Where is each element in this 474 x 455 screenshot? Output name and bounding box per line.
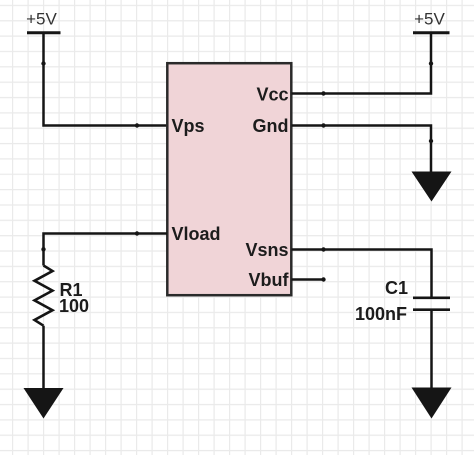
terminal dot at Vbuf stub end bbox=[321, 277, 325, 281]
power symbol +5V (right) bbox=[413, 10, 450, 33]
pin stub Vbuf (unconnected) bbox=[292, 278, 325, 281]
junction dot above Gnd ground bbox=[429, 139, 433, 143]
wire from C1 to ground bbox=[430, 311, 433, 389]
junction dot at Gnd pin end bbox=[321, 123, 325, 127]
svg-text:Vcc: Vcc bbox=[256, 85, 288, 105]
junction dot at Vcc pin end bbox=[321, 91, 325, 95]
junction dot at Vsns pin end bbox=[321, 247, 325, 251]
IC U1 body bbox=[167, 63, 291, 295]
wire from Vsns to capacitor C1 bbox=[292, 250, 432, 298]
ground symbol (under R1) bbox=[24, 388, 64, 419]
svg-text:Vps: Vps bbox=[172, 116, 205, 136]
junction dot on left +5V wire bbox=[41, 61, 45, 65]
ground symbol (under Gnd) bbox=[412, 172, 452, 202]
junction dot at Vload pin end bbox=[135, 231, 139, 235]
resistor R1 bbox=[35, 266, 53, 326]
svg-text:100nF: 100nF bbox=[355, 304, 407, 324]
svg-text:Vbuf: Vbuf bbox=[249, 270, 290, 290]
svg-text:Gnd: Gnd bbox=[253, 116, 289, 136]
power symbol +5V (left) bbox=[26, 10, 60, 33]
svg-text:100: 100 bbox=[59, 296, 89, 316]
wire from Gnd to ground bbox=[292, 126, 432, 173]
wire from Vload to resistor R1 bbox=[44, 234, 168, 266]
junction dot at Vps pin end bbox=[135, 123, 139, 127]
svg-text:C1: C1 bbox=[385, 278, 408, 298]
junction dot on right +5V wire bbox=[429, 61, 433, 65]
capacitor C1 bbox=[413, 298, 450, 310]
junction dot at R1 top terminal bbox=[41, 247, 45, 251]
wire from left +5V down to Vps bbox=[44, 34, 168, 126]
ground symbol (under C1) bbox=[412, 388, 452, 419]
svg-text:Vload: Vload bbox=[172, 224, 221, 244]
svg-text:+5V: +5V bbox=[414, 10, 445, 29]
wire from Vcc to right +5V bbox=[292, 34, 432, 94]
wire from R1 to ground bbox=[42, 326, 45, 389]
svg-text:+5V: +5V bbox=[26, 10, 57, 29]
svg-text:Vsns: Vsns bbox=[245, 240, 288, 260]
